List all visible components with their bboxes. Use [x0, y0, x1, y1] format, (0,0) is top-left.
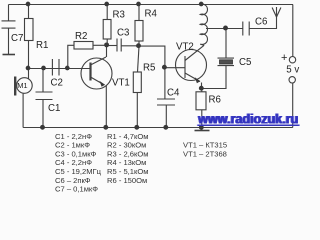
svg-text:C6 – 2пкФ: C6 – 2пкФ [55, 176, 91, 185]
svg-text:R4: R4 [145, 9, 158, 20]
svg-text:VT1: VT1 [112, 78, 130, 89]
svg-text:VT1 – 2Т368: VT1 – 2Т368 [183, 149, 227, 158]
svg-text:R6 - 150Ом: R6 - 150Ом [107, 176, 147, 185]
svg-text:C3: C3 [117, 28, 129, 39]
svg-text:VT2: VT2 [176, 42, 194, 53]
svg-text:C5: C5 [239, 57, 251, 68]
svg-text:R3 - 2,6кОм: R3 - 2,6кОм [107, 149, 148, 158]
svg-text:C5 - 19,2МГц: C5 - 19,2МГц [55, 167, 102, 176]
svg-text:M1: M1 [17, 81, 27, 90]
svg-text:5 v: 5 v [286, 64, 299, 75]
svg-text:C2 - 1мкФ: C2 - 1мкФ [55, 141, 90, 150]
svg-text:C7 – 0,1мкФ: C7 – 0,1мкФ [55, 185, 98, 193]
svg-text:+: + [281, 52, 287, 64]
svg-text:R5: R5 [143, 63, 155, 74]
svg-text:R2 - 30кОм: R2 - 30кОм [107, 141, 146, 150]
svg-text:R3: R3 [113, 10, 125, 21]
svg-text:C7: C7 [11, 33, 23, 44]
svg-text:VT1 – КТ315: VT1 – КТ315 [183, 141, 227, 150]
svg-text:C1: C1 [48, 103, 60, 114]
svg-text:C4 - 2,2нФ: C4 - 2,2нФ [55, 158, 92, 167]
svg-text:C3 - 0,1мкФ: C3 - 0,1мкФ [55, 149, 97, 158]
svg-text:R1: R1 [36, 40, 48, 51]
svg-text:R4 - 13кОм: R4 - 13кОм [107, 158, 146, 167]
svg-text:C4: C4 [167, 88, 180, 99]
svg-text:www.radiozuk.ru: www.radiozuk.ru [197, 111, 298, 127]
svg-text:R6: R6 [209, 95, 221, 106]
svg-text:R2: R2 [75, 31, 87, 42]
svg-text:C6: C6 [255, 17, 267, 28]
svg-text:C2: C2 [51, 78, 63, 89]
svg-text:C1 - 2,2нФ: C1 - 2,2нФ [55, 132, 92, 141]
svg-text:R1 - 4,7кОм: R1 - 4,7кОм [107, 132, 148, 141]
svg-text:R5 - 5,1кОм: R5 - 5,1кОм [107, 167, 148, 176]
